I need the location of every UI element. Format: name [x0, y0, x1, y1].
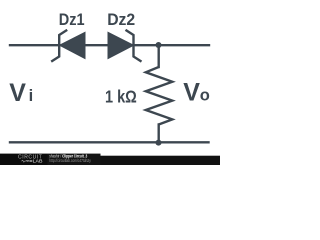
wire: input top-left to Dz1 cathode [10, 44, 60, 46]
watermark bottom bar [101, 156, 221, 165]
svg-text:V: V [9, 79, 26, 107]
svg-text:1 kΩ: 1 kΩ [105, 86, 137, 106]
zener diode Dz2 triangle (anode, points right) [108, 32, 134, 58]
resistor R1 zigzag [146, 67, 173, 125]
svg-text:i: i [29, 87, 34, 105]
svg-text:o: o [200, 87, 210, 105]
svg-text:http://circuitlab.com/c47tdn2y: http://circuitlab.com/c47tdn2y [49, 158, 91, 163]
wire: bottom rail [10, 141, 209, 143]
svg-text:Dz1: Dz1 [59, 11, 85, 29]
svg-text:V: V [183, 79, 200, 107]
watermark logo box (CircuitLab) [0, 154, 48, 165]
zener diode Dz1 triangle (anode, points left) [60, 32, 85, 58]
wire: between Dz1 and Dz2 anodes [85, 44, 109, 46]
wire: Dz2 cathode to node and output top-right [134, 44, 210, 46]
svg-text:Dz2: Dz2 [107, 11, 135, 29]
zener diode Dz2 cathode bar [127, 31, 141, 62]
svg-text:∿⎓≡LAB: ∿⎓≡LAB [21, 159, 43, 164]
node B (bottom junction) [156, 140, 162, 146]
wire: node to resistor top [157, 45, 159, 67]
watermark info box [48, 153, 101, 165]
zener diode Dz1 cathode bar [52, 31, 66, 62]
wire: resistor bottom to bottom rail [157, 125, 159, 143]
node A (top junction) [156, 42, 162, 48]
